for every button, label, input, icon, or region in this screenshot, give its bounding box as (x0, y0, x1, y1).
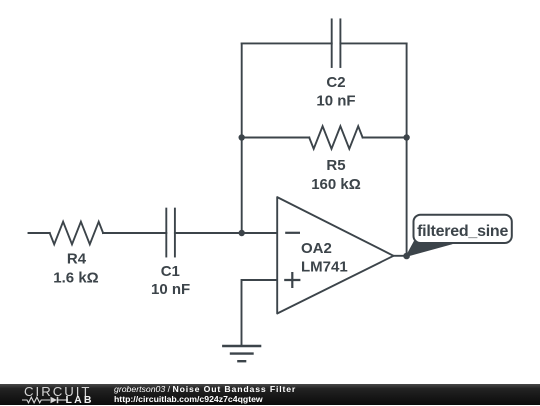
svg-text:LM741: LM741 (301, 258, 348, 275)
wire R5 to node C (363, 137, 407, 139)
wire R4 to C1 (103, 232, 166, 234)
svg-text:10 nF: 10 nF (151, 281, 190, 298)
wire input stub (29, 232, 50, 234)
C2 value label (316, 74, 355, 110)
CircuitLab logo (22, 384, 97, 405)
svg-text:R5: R5 (326, 157, 345, 174)
wire C1 to node A (175, 232, 242, 234)
capacitor C1 (166, 209, 175, 257)
wire right vertical (top corner down to output node) (406, 43, 408, 256)
wire top left to C2 (242, 42, 332, 44)
R4 value label (53, 250, 98, 286)
node B junction dot (239, 134, 245, 140)
svg-text:C1: C1 (161, 263, 180, 280)
footer bar (0, 384, 540, 405)
net flag filtered_sine tail (407, 242, 452, 257)
footer title text (114, 384, 296, 405)
wire C2 to top right corner (340, 42, 406, 44)
wire op-amp output (394, 255, 407, 257)
capacitor C2 (332, 19, 341, 67)
wire node B to R5 (242, 137, 310, 139)
logo resistor-diode glyph (22, 396, 68, 404)
resistor R4 (50, 222, 103, 245)
svg-text:C2: C2 (326, 74, 345, 91)
R5 value label (311, 157, 361, 193)
C1 value label (151, 263, 190, 298)
op-amp non-inverting input plus sign (284, 272, 300, 288)
op-amp inverting input minus sign (285, 232, 300, 234)
wire left vertical (node A up to top loop) (241, 43, 243, 233)
op-amp designator OA2 LM741 (301, 240, 348, 275)
svg-text:OA2: OA2 (301, 240, 332, 257)
svg-text:1.6 kΩ: 1.6 kΩ (53, 270, 98, 287)
svg-text:R4: R4 (67, 250, 87, 267)
node A junction dot (239, 230, 245, 236)
svg-text:filtered_sine: filtered_sine (417, 223, 508, 240)
net flag filtered_sine box (414, 215, 512, 243)
op-amp OA2 triangle body (277, 197, 393, 313)
wire node A to op-amp inverting input (242, 232, 278, 234)
svg-text:10 nF: 10 nF (316, 93, 355, 110)
svg-text:160 kΩ: 160 kΩ (311, 176, 361, 193)
resistor R5 (309, 126, 362, 149)
node C junction dot (403, 134, 409, 140)
node D output junction dot (403, 253, 410, 260)
wire op-amp non-inverting input (242, 280, 278, 346)
ground symbol (222, 346, 261, 361)
